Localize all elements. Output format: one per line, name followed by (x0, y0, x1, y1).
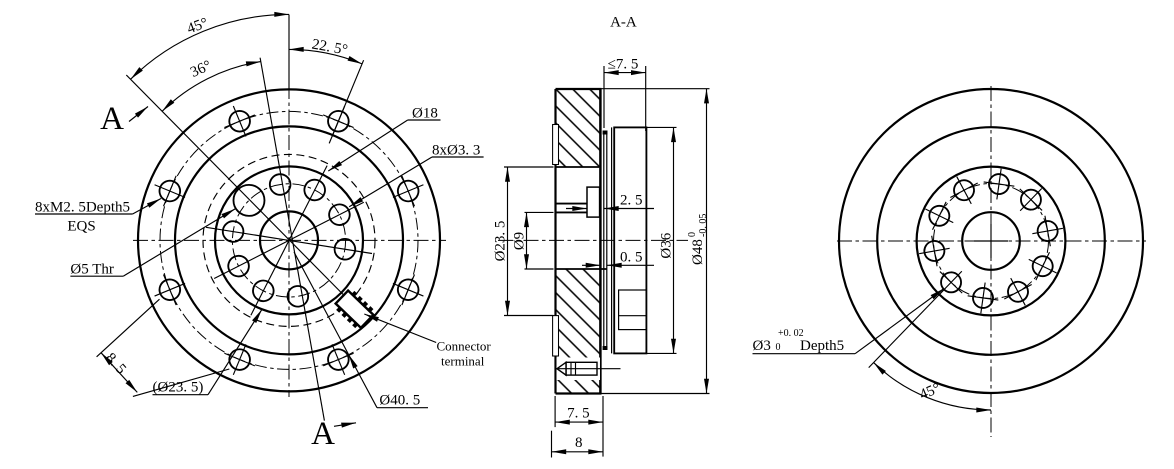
label diam5 leader (123, 209, 235, 277)
cover plate bottom cap (603, 346, 608, 350)
flange left face (554, 89, 556, 394)
motor body outline (614, 127, 646, 353)
svg-text:A: A (100, 101, 124, 137)
label diam3 underline (753, 353, 856, 355)
radial line at -117deg (214, 240, 289, 278)
dim 7.5/8 ext right (602, 396, 604, 457)
dim 2.5 arrow left (566, 208, 587, 210)
left view horizontal centerline (133, 239, 446, 241)
body notch rect (619, 290, 647, 330)
section arrow A top (129, 107, 148, 122)
dim le7.5 ext line left (603, 66, 605, 128)
right middle circle diam36 (877, 127, 1105, 355)
36 degree dimension arc (162, 62, 261, 112)
bolt hole diam3.3 at 22.5deg (317, 100, 360, 143)
inner hole diam3.3 at 99deg (333, 237, 357, 261)
svg-text:terminal: terminal (441, 354, 485, 369)
screw body (566, 362, 597, 375)
right 45deg arc (874, 363, 991, 410)
left face groove strip lower (553, 316, 559, 356)
svg-text:Ø3: Ø3 (753, 338, 771, 354)
45 degree dimension arc (131, 14, 289, 79)
left face groove strip upper (553, 125, 559, 165)
right view horizontal centerline (837, 240, 1146, 242)
dim 7.5 line (555, 421, 603, 423)
right outer circle (839, 89, 1143, 393)
svg-text:8: 8 (575, 435, 583, 451)
right dowel hole diam3 at 116deg (1022, 245, 1063, 286)
dim 8 ext left (551, 431, 553, 458)
svg-text:2. 5: 2. 5 (620, 193, 643, 209)
svg-text:8xM2. 5Depth5: 8xM2. 5Depth5 (35, 200, 130, 216)
inner circle diam 23.5 (215, 166, 363, 314)
radial line at -81deg (206, 227, 289, 240)
rotor left line (611, 127, 613, 353)
section line A lower segment (-9deg/+171deg) (260, 58, 324, 421)
screw thread line 1 (570, 362, 572, 375)
inner hole diam3.3 at 27deg (301, 176, 329, 204)
svg-text:Ø9: Ø9 (512, 232, 528, 250)
label (diam23.5) underline (153, 394, 209, 396)
bore diam23.5 recess edge (556, 166, 600, 168)
radial line at 63deg (289, 202, 364, 240)
dim 0.5 arrow left (582, 264, 600, 266)
left view vertical centerline (288, 84, 290, 397)
svg-text:Ø40. 5: Ø40. 5 (379, 393, 420, 409)
radial line at 27deg (289, 166, 327, 241)
dim 2.5 line+arrow right (604, 208, 654, 210)
bolt hole diam3.3 at 157.5deg (317, 338, 360, 381)
label diam40.5 leader tail (294, 252, 349, 354)
svg-text:7. 5: 7. 5 (567, 406, 590, 422)
svg-text:≤7. 5: ≤7. 5 (608, 57, 639, 73)
bore diam9 top edge (556, 211, 588, 213)
connector terminal symbol (333, 288, 377, 331)
dim diam9 ext bottom (525, 268, 554, 270)
outer circle flange OD (138, 89, 440, 391)
connector leader (364, 314, 436, 343)
svg-text:Ø36: Ø36 (659, 232, 675, 258)
dim le7.5 ext line right (645, 66, 647, 131)
8.5 dim extension line 1 (97, 299, 160, 357)
svg-text:Ø23. 5: Ø23. 5 (493, 221, 509, 262)
dim 0.5 line+arrow right (607, 264, 654, 266)
vertical extension line above view (288, 15, 290, 90)
screw thread line 2 (575, 362, 577, 375)
dim diam23.5 line (507, 167, 509, 316)
right center hole (962, 212, 1020, 270)
dim diam23.5 ext top (504, 166, 554, 168)
label 8xM2.5 underline (35, 213, 133, 215)
label diam3 leader (855, 289, 944, 354)
bolt hole diam3.3 at 202.5deg (218, 338, 261, 381)
radial line at 99deg (289, 240, 372, 253)
label diam18 underline (408, 119, 441, 121)
dim diam36 ext top (646, 126, 676, 128)
inner hole diam3.3 at -153deg (249, 277, 277, 305)
svg-text:Ø18: Ø18 (412, 106, 438, 122)
bolt hole diam3.3 at 337.5deg (218, 100, 261, 143)
right dowel hole diam3 at 188deg (965, 280, 1000, 315)
flange hatch upper (556, 89, 601, 167)
right dowel hole diam3 at 260deg (916, 233, 952, 269)
dim 8 line (552, 451, 604, 453)
circle diam 36 boss (175, 126, 403, 354)
hidden dashed circle (203, 154, 375, 326)
dim diam48 ext bottom (602, 393, 710, 395)
cover plate top cap (603, 131, 608, 135)
dim diam9 line (526, 212, 528, 269)
extension line at +22.5deg (329, 60, 363, 143)
center bore diam 9 (260, 211, 318, 269)
svg-text:0: 0 (776, 342, 781, 353)
section arrow A bottom (334, 423, 356, 427)
label 8xM2.5 leader (133, 199, 161, 215)
label 8xdiam3.3 underline (432, 156, 484, 158)
dim diam48 line (706, 89, 708, 394)
dim le7.5 line (604, 72, 646, 74)
right center crosshair (974, 240, 1008, 242)
right dowel hole diam3 at 332deg (943, 169, 985, 211)
bolt hole diam3.3 at 112.5deg (387, 268, 430, 311)
right hub circle diam23.5 (917, 167, 1066, 316)
screw cutout (557, 358, 601, 381)
svg-text:Connector: Connector (437, 339, 492, 354)
inner hole diam3.3 at 63deg (326, 201, 354, 229)
shaft shoulder edge (556, 203, 588, 205)
flange top edge (556, 88, 602, 90)
right dowel hole diam3 at 296deg (919, 195, 960, 236)
flange right face thick (599, 89, 602, 394)
svg-text:(Ø23. 5): (Ø23. 5) (153, 380, 204, 396)
bolt hole diam3.3 at 247.5deg (148, 268, 191, 311)
radial line at -153deg (251, 240, 289, 315)
8.5 dim extension line 2 (133, 369, 229, 396)
svg-text:Ø5 Thr: Ø5 Thr (70, 262, 113, 278)
label diam40.5 leader (349, 354, 378, 407)
dim diam48 text (687, 214, 709, 265)
bolt circle diam 40.5 dash-dot (160, 111, 418, 369)
svg-text:Ø48: Ø48 (690, 239, 706, 265)
section line A upper segment (-44.5deg) + 45deg dim extension (126, 75, 345, 297)
inner hole diam3.3 at -9deg (268, 173, 292, 197)
inner hole diam3.3 at -117deg (225, 252, 253, 280)
body notch mid line (619, 315, 647, 317)
dim diam48 ext top (602, 88, 710, 90)
svg-text:8xØ3. 3: 8xØ3. 3 (432, 143, 480, 159)
dim diam36 ext bottom (646, 352, 676, 354)
dim diam23.5 ext bottom (504, 315, 554, 317)
flange hatch lower (556, 269, 601, 394)
cover plate left line (603, 131, 605, 351)
svg-text:A: A (311, 416, 335, 452)
label (diam23.5) leader (208, 309, 262, 394)
right dowel hole diam3 at 152deg (997, 271, 1039, 313)
hole diam5 Thr at -45deg (227, 178, 271, 222)
right dowel hole diam3 at 224deg (929, 260, 973, 304)
right dowel hole diam3 at 8deg (981, 167, 1016, 202)
bolt hole diam3.3 at 67.5deg (387, 169, 430, 212)
svg-text:0. 5: 0. 5 (620, 250, 643, 266)
section horizontal centerline (498, 239, 688, 241)
hub block (587, 187, 600, 217)
label diam40.5 underline (377, 407, 428, 409)
dim diam36 line (673, 127, 675, 353)
right hole pattern circle dash-dot (934, 184, 1049, 299)
screw axis line (556, 368, 621, 370)
svg-text:A-A: A-A (610, 15, 637, 31)
svg-text:Depth5: Depth5 (800, 338, 844, 354)
svg-text:EQS: EQS (67, 219, 95, 235)
svg-text:-0. 05: -0. 05 (698, 214, 709, 237)
dim 7.5 ext left (554, 396, 556, 427)
hole pattern circle diam 18 dash-dot (232, 184, 345, 297)
right view vertical centerline (990, 86, 992, 437)
22.5 degree dimension arc (289, 49, 362, 64)
label 8xdiam3.3 leader (349, 157, 432, 207)
right dowel hole diam3 at 44deg (1009, 178, 1053, 222)
right dowel hole diam3 at 80deg (1030, 213, 1066, 249)
dim diam9 ext top (525, 211, 554, 213)
bolt hole diam3.3 at 292.5deg (148, 169, 191, 212)
label diam18 leader (328, 120, 407, 171)
flange bottom edge (556, 392, 602, 394)
8.5 dimension line (101, 353, 137, 393)
svg-text:0: 0 (687, 232, 698, 237)
cover plate right line (606, 131, 608, 351)
inner hole diam3.3 at 171deg (286, 285, 310, 309)
right 45deg radial extension (869, 290, 944, 368)
bore diam9 bottom edge (556, 268, 607, 270)
label diam5 underline (70, 275, 123, 277)
screw tip cone (557, 362, 566, 375)
inner hole diam3.3 at -81deg (221, 220, 245, 244)
